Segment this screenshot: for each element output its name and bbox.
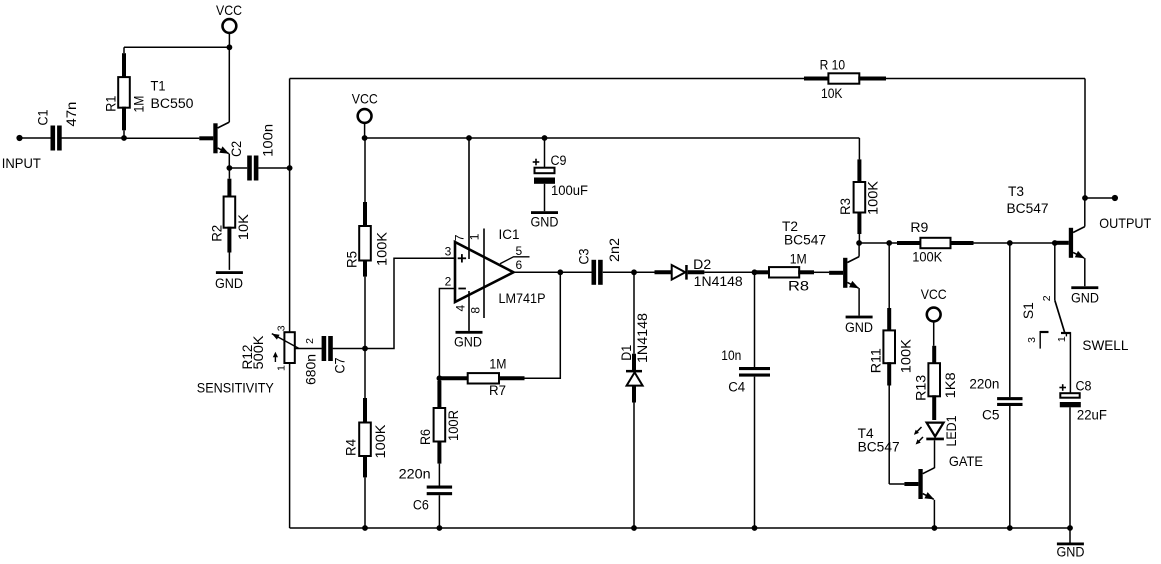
svg-text:2: 2 <box>304 338 316 344</box>
transistor T1 <box>199 136 213 140</box>
svg-text:C9: C9 <box>551 153 567 168</box>
svg-text:VCC: VCC <box>921 286 947 302</box>
svg-text:BC547: BC547 <box>858 440 900 455</box>
pin 1 (IC1) <box>483 229 485 319</box>
wire <box>1069 332 1071 393</box>
svg-text:4: 4 <box>454 305 468 312</box>
ground (T2) <box>846 316 873 319</box>
capacitor C4 <box>739 367 770 370</box>
capacitor C2 <box>247 156 252 181</box>
svg-text:100K: 100K <box>898 339 913 373</box>
svg-text:GND: GND <box>845 320 873 335</box>
node R9/C5 junction <box>1007 240 1013 246</box>
capacitor C5 <box>997 397 1022 400</box>
svg-text:BC547: BC547 <box>784 233 826 248</box>
svg-text:R13: R13 <box>914 375 929 401</box>
svg-text:10K: 10K <box>236 214 251 240</box>
wire <box>1085 197 1115 199</box>
svg-text:C7: C7 <box>332 358 347 374</box>
node VCC/R1/T1-collector junction <box>227 44 233 50</box>
wire <box>514 271 561 273</box>
svg-text:SENSITIVITY: SENSITIVITY <box>197 380 275 396</box>
svg-text:1M: 1M <box>790 251 807 266</box>
wire <box>441 257 455 259</box>
node input/R1 junction <box>121 135 127 141</box>
wire <box>228 154 230 168</box>
ground (R2) <box>216 271 243 274</box>
svg-text:2n2: 2n2 <box>607 238 622 262</box>
wire <box>290 78 804 80</box>
svg-text:3: 3 <box>276 325 288 331</box>
svg-text:R3: R3 <box>838 198 853 215</box>
svg-text:GND: GND <box>531 215 559 230</box>
capacitor C6 <box>427 486 452 489</box>
resistor R3 <box>858 158 860 160</box>
svg-text:C4: C4 <box>728 380 745 395</box>
svg-text:D1: D1 <box>619 345 634 361</box>
svg-text:100K: 100K <box>373 425 388 459</box>
wire <box>886 78 1085 80</box>
svg-text:1K8: 1K8 <box>943 372 958 398</box>
wire <box>258 167 289 169</box>
ground (C9) <box>531 211 558 214</box>
svg-text:100R: 100R <box>446 410 461 441</box>
resistor R7 <box>440 376 469 380</box>
svg-text:R2: R2 <box>210 225 225 242</box>
svg-text:R4: R4 <box>344 439 359 456</box>
node OUTPUT terminal <box>1112 195 1118 201</box>
svg-text:C1: C1 <box>36 110 51 126</box>
node T1-emitter/C2/R2 junction <box>227 165 233 171</box>
svg-text:680n: 680n <box>304 354 319 385</box>
svg-text:500K: 500K <box>251 336 266 370</box>
pin 5 (IC1) <box>500 257 530 264</box>
resistor R2 <box>228 168 230 179</box>
resistor R8 <box>755 270 771 274</box>
wire <box>525 272 561 378</box>
wire <box>333 348 365 350</box>
resistor R11 <box>888 243 890 308</box>
svg-text:GND: GND <box>1057 545 1085 560</box>
wire <box>20 137 51 139</box>
node R9/S1 junction <box>1052 240 1058 246</box>
node R10/T3-collector/OUTPUT junction <box>1082 195 1088 201</box>
wire <box>1084 198 1086 227</box>
node INPUT terminal <box>16 135 22 141</box>
svg-text:C5: C5 <box>982 408 1000 423</box>
node R3/T2-collector/R9 junction <box>856 240 862 246</box>
led LED1 <box>927 423 944 437</box>
svg-text:R 10: R 10 <box>820 58 846 73</box>
svg-text:C8: C8 <box>1076 378 1092 393</box>
svg-text:1N4148: 1N4148 <box>635 313 650 363</box>
diode D1 <box>633 272 635 353</box>
transistor T3 <box>1055 241 1069 245</box>
capacitor C8 <box>1060 393 1079 398</box>
wire <box>858 243 860 257</box>
resistor R5 <box>364 138 366 202</box>
capacitor C7 <box>322 336 327 361</box>
svg-text:100n: 100n <box>260 124 275 157</box>
svg-text:2: 2 <box>1041 295 1053 301</box>
svg-text:LED1: LED1 <box>944 416 959 447</box>
svg-text:C3: C3 <box>576 249 591 265</box>
capacitor C9 <box>544 138 546 168</box>
svg-text:GND: GND <box>1071 291 1099 306</box>
svg-text:3: 3 <box>445 245 452 259</box>
node T4-emitter/bus junction <box>932 525 938 531</box>
wire <box>1010 242 1055 244</box>
node R7/R6/pin2 junction <box>437 375 443 381</box>
node C9/VCC-rail junction <box>542 135 548 141</box>
svg-text:10n: 10n <box>721 348 741 363</box>
wire <box>858 288 860 316</box>
svg-text:100K: 100K <box>375 232 390 266</box>
wire <box>704 271 754 273</box>
svg-text:OUTPUT: OUTPUT <box>1099 215 1151 231</box>
ground (bus) <box>1069 528 1071 543</box>
svg-text:SWELL: SWELL <box>1082 337 1128 353</box>
svg-text:VCC: VCC <box>352 91 378 107</box>
svg-text:5: 5 <box>516 244 523 258</box>
pin 4 (IC1 V-) <box>468 291 470 331</box>
svg-text:2: 2 <box>445 275 452 289</box>
diode D2 <box>655 270 672 274</box>
svg-text:VCC: VCC <box>216 2 242 18</box>
wire <box>754 272 756 367</box>
node C5/bus junction <box>1007 525 1013 531</box>
node C2/bus junction <box>287 165 293 171</box>
svg-text:1M: 1M <box>489 357 506 372</box>
svg-text:22uF: 22uF <box>1077 408 1107 423</box>
svg-text:6: 6 <box>516 258 523 272</box>
svg-text:R1: R1 <box>104 96 119 112</box>
pin 7 (IC1 V+) <box>468 138 470 259</box>
node C3/D2/D1 junction <box>631 269 637 275</box>
resistor R9 <box>889 242 897 244</box>
ground (IC1 pin4) <box>456 331 483 334</box>
svg-text:1: 1 <box>1056 336 1068 342</box>
node op-amp output junction <box>557 269 563 275</box>
wire <box>1009 406 1011 528</box>
node R4/bus junction <box>362 525 368 531</box>
svg-text:R5: R5 <box>345 251 360 268</box>
svg-text:10K: 10K <box>821 86 843 101</box>
svg-text:3: 3 <box>1026 337 1038 343</box>
transistor T4 <box>904 482 918 486</box>
wire <box>289 363 291 528</box>
wire <box>1009 243 1011 397</box>
wire <box>124 137 199 139</box>
node pin7/VCC-rail junction <box>466 135 472 141</box>
capacitor C3 <box>592 260 597 285</box>
resistor R4 <box>364 349 366 399</box>
svg-text:1: 1 <box>276 365 288 371</box>
wire <box>228 47 230 122</box>
power VCC (gate) <box>927 308 941 322</box>
wire <box>754 377 756 528</box>
ground (T3) <box>1071 286 1098 289</box>
svg-text:S1: S1 <box>1021 302 1036 319</box>
svg-text:T3: T3 <box>1008 184 1024 199</box>
wire <box>859 242 889 244</box>
svg-text:7: 7 <box>452 234 466 241</box>
wire <box>560 271 591 273</box>
wire <box>61 137 124 139</box>
wire <box>858 138 860 159</box>
wire <box>634 271 655 273</box>
resistor R13 <box>932 346 936 364</box>
wire <box>1084 258 1086 286</box>
svg-text:1M: 1M <box>132 96 147 113</box>
wire <box>365 137 860 139</box>
svg-text:R9: R9 <box>910 220 928 235</box>
node R9/R11 junction <box>886 240 892 246</box>
wire <box>290 527 1070 529</box>
power VCC (T1) <box>223 19 237 33</box>
wire <box>438 495 440 528</box>
svg-text:220n: 220n <box>399 466 431 481</box>
node D1/bus junction <box>631 525 637 531</box>
svg-text:R7: R7 <box>489 383 506 398</box>
svg-text:1N4148: 1N4148 <box>694 274 743 289</box>
svg-text:IC1: IC1 <box>499 227 520 242</box>
wire <box>124 46 229 48</box>
svg-text:8: 8 <box>468 307 482 314</box>
wire <box>439 289 455 379</box>
node C6/bus junction <box>437 525 443 531</box>
svg-text:T1: T1 <box>151 79 166 94</box>
svg-text:D2: D2 <box>693 257 711 272</box>
potentiometer R12 <box>284 332 294 363</box>
wire <box>889 483 904 485</box>
transistor T2 <box>829 271 843 275</box>
node VCC/R5 junction <box>362 135 368 141</box>
svg-text:1: 1 <box>467 233 481 240</box>
svg-text:GND: GND <box>215 276 243 291</box>
svg-text:C2: C2 <box>229 141 244 157</box>
svg-text:LM741P: LM741P <box>499 291 546 306</box>
node C4/bus junction <box>752 525 758 531</box>
op-amp U1 (IC1 LM741P) <box>455 242 514 302</box>
svg-text:100K: 100K <box>866 181 881 215</box>
svg-text:GATE: GATE <box>949 453 983 469</box>
wire <box>289 79 291 333</box>
wire <box>1069 407 1071 528</box>
svg-text:BC550: BC550 <box>151 96 194 111</box>
capacitor C1 <box>51 126 56 151</box>
node C7/R5/R4/op-amp-input junction <box>362 346 368 352</box>
resistor R1 <box>123 47 125 53</box>
wire <box>365 258 441 348</box>
svg-text:R6: R6 <box>418 429 433 445</box>
svg-text:BC547: BC547 <box>1007 201 1049 216</box>
svg-text:C6: C6 <box>413 498 429 513</box>
wire <box>1084 79 1086 199</box>
svg-text:R11: R11 <box>868 348 883 373</box>
svg-text:INPUT: INPUT <box>2 155 41 171</box>
node D2/R8/C4 junction <box>752 269 758 275</box>
wire <box>603 271 634 273</box>
resistor R10 <box>804 77 829 81</box>
power VCC (op-amp) <box>358 109 372 123</box>
svg-text:GND: GND <box>454 335 482 350</box>
svg-text:100K: 100K <box>912 250 942 265</box>
svg-text:R8: R8 <box>788 279 809 294</box>
wire <box>229 167 247 169</box>
node C8/bus junction <box>1067 525 1073 531</box>
resistor R6 <box>438 378 440 381</box>
svg-text:100uF: 100uF <box>551 183 588 198</box>
switch S1 <box>1054 243 1056 300</box>
wire <box>933 500 935 528</box>
svg-text:47n: 47n <box>64 102 79 127</box>
svg-text:220n: 220n <box>969 377 999 392</box>
